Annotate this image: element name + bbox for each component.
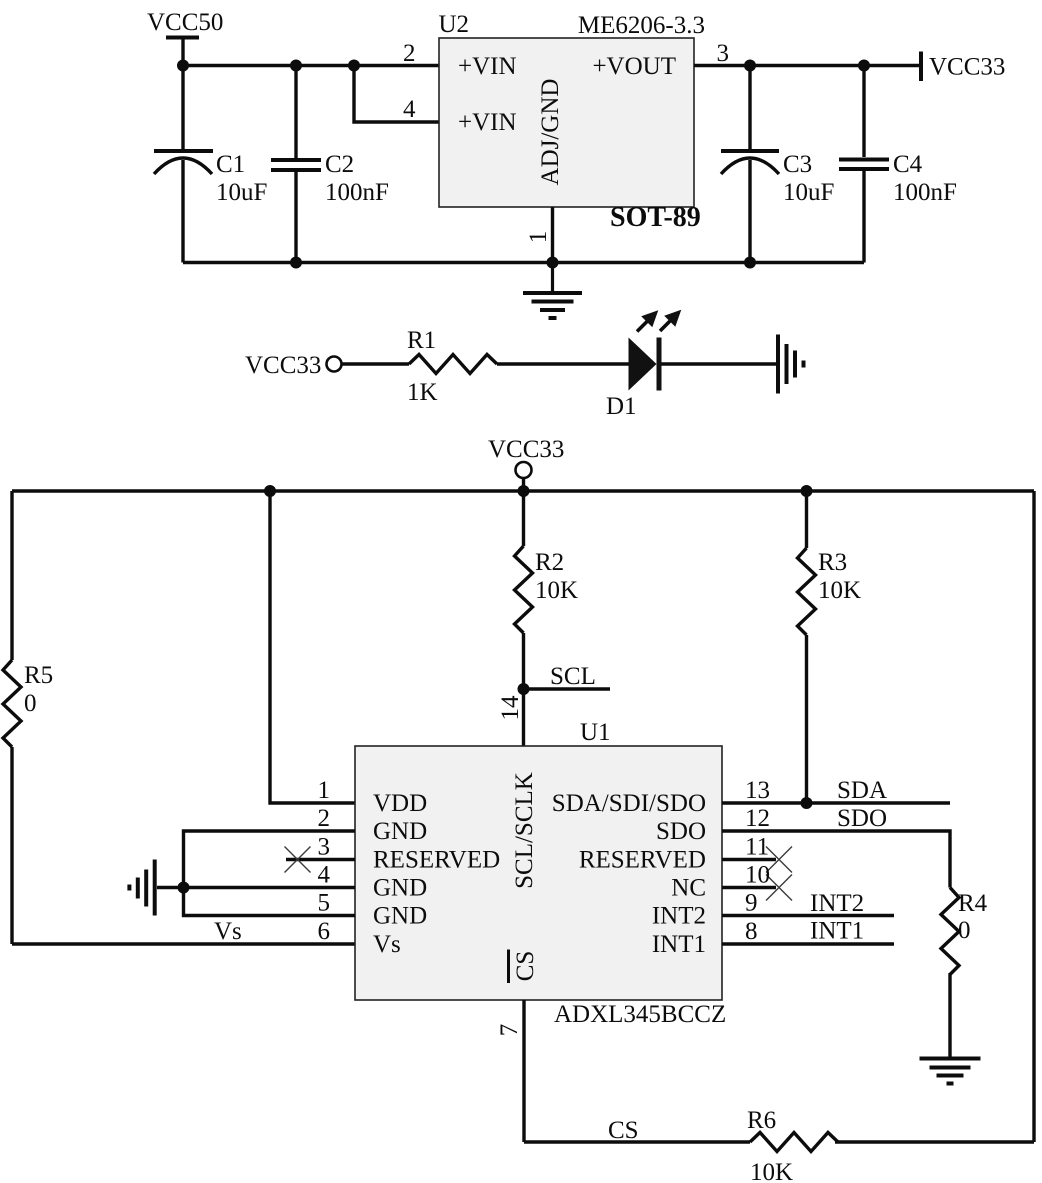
svg-text:100nF: 100nF bbox=[325, 179, 389, 206]
wire to ground (left) bbox=[157, 886, 184, 889]
ground (below R4) bbox=[920, 1059, 981, 1084]
resistor R5 bbox=[3, 660, 53, 747]
no-connect X pin10 bbox=[766, 875, 792, 901]
wire pin3 to VCC33 bbox=[694, 64, 921, 67]
wire R5 to Vs bbox=[10, 747, 13, 944]
svg-text:4: 4 bbox=[318, 862, 331, 889]
svg-text:Vs: Vs bbox=[214, 918, 242, 945]
svg-text:10K: 10K bbox=[535, 577, 578, 604]
svg-text:11: 11 bbox=[745, 834, 769, 861]
svg-text:GND: GND bbox=[373, 903, 427, 930]
junction U2 pin1 bottom bbox=[547, 257, 559, 269]
capacitor C4 bbox=[839, 66, 957, 263]
svg-text:NC: NC bbox=[671, 875, 706, 902]
svg-text:+VIN: +VIN bbox=[458, 53, 517, 80]
ground (left of U1, sideways) bbox=[129, 860, 154, 916]
junction C4 top bbox=[858, 60, 870, 72]
svg-text:2: 2 bbox=[403, 40, 416, 67]
resistor R2 bbox=[515, 491, 579, 633]
op-amp U2 body bbox=[439, 38, 694, 207]
wire pin8 INT1 bbox=[722, 942, 894, 945]
svg-text:C2: C2 bbox=[325, 151, 354, 178]
wire U2 pin1 down bbox=[551, 207, 554, 263]
junction at VCC50 stub bbox=[177, 60, 189, 72]
svg-text:INT1: INT1 bbox=[652, 931, 706, 958]
junction C3 top bbox=[744, 60, 756, 72]
svg-text:R5: R5 bbox=[24, 662, 53, 689]
wire R1 to D1 bbox=[497, 362, 629, 365]
wire GND pin4 bbox=[184, 886, 356, 889]
junction at pin4 branch bbox=[348, 60, 360, 72]
svg-text:+VIN: +VIN bbox=[458, 109, 517, 136]
power flag VCC50 bbox=[147, 9, 223, 66]
svg-text:12: 12 bbox=[745, 805, 770, 832]
svg-text:SDO: SDO bbox=[837, 805, 887, 832]
junction VDD drop bbox=[264, 485, 276, 497]
wire pin11 stub bbox=[722, 858, 776, 861]
svg-text:GND: GND bbox=[373, 818, 427, 845]
power flag VCC33 (top right) bbox=[921, 52, 1005, 82]
wire VCC50 rail to U2 pin2 bbox=[183, 64, 439, 67]
junction GND bracket bbox=[178, 882, 190, 894]
wire right rail bbox=[1032, 491, 1035, 1142]
svg-text:INT1: INT1 bbox=[810, 918, 864, 945]
svg-text:100nF: 100nF bbox=[893, 179, 957, 206]
wire pin3 stub bbox=[286, 858, 355, 861]
svg-text:7: 7 bbox=[496, 1024, 523, 1037]
svg-text:0: 0 bbox=[958, 917, 971, 944]
wire R2 to SCL junction bbox=[522, 633, 525, 689]
capacitor C3 bbox=[721, 66, 834, 263]
svg-text:VCC33: VCC33 bbox=[929, 54, 1005, 81]
svg-text:9: 9 bbox=[745, 890, 758, 917]
junction SCL bbox=[518, 683, 530, 695]
resistor R1 bbox=[407, 327, 497, 406]
no-connect X pin11 bbox=[766, 847, 792, 873]
wire GND pin2 bracket bbox=[184, 831, 356, 916]
junction C2 bottom bbox=[290, 257, 302, 269]
svg-text:10K: 10K bbox=[750, 1159, 793, 1183]
wire R6 to right rail bbox=[835, 1140, 1034, 1143]
wire pin12 SDO to R4 bbox=[722, 831, 950, 888]
wire left rail to R5 bbox=[10, 491, 13, 660]
wire pin4 branch bbox=[354, 66, 439, 123]
svg-text:VCC33: VCC33 bbox=[245, 352, 321, 379]
svg-text:R3: R3 bbox=[818, 549, 847, 576]
svg-text:3: 3 bbox=[318, 834, 331, 861]
ground (below U2 pin1) bbox=[523, 263, 582, 319]
no-connect X pin3 bbox=[285, 847, 311, 873]
svg-text:+VOUT: +VOUT bbox=[592, 53, 676, 80]
svg-text:INT2: INT2 bbox=[652, 903, 706, 930]
ground (right of D1, sideways) bbox=[778, 335, 804, 394]
svg-text:VCC50: VCC50 bbox=[147, 9, 223, 36]
svg-text:8: 8 bbox=[745, 918, 758, 945]
resistor R3 bbox=[798, 491, 862, 635]
wire pin10 stub bbox=[722, 886, 776, 889]
wire D1 to ground bbox=[662, 362, 777, 365]
svg-text:SCL/SCLK: SCL/SCLK bbox=[511, 772, 538, 889]
wire Vs to U1 pin6 bbox=[12, 942, 355, 945]
svg-text:SOT-89: SOT-89 bbox=[610, 202, 701, 233]
svg-text:1K: 1K bbox=[407, 379, 438, 406]
svg-text:1: 1 bbox=[525, 231, 552, 244]
svg-text:C3: C3 bbox=[783, 151, 812, 178]
junction at C2 top bbox=[290, 60, 302, 72]
svg-text:VCC33: VCC33 bbox=[488, 436, 564, 463]
svg-text:SDO: SDO bbox=[656, 818, 706, 845]
svg-text:4: 4 bbox=[403, 96, 416, 123]
wire R4 to ground bbox=[948, 973, 951, 1058]
svg-text:U2: U2 bbox=[439, 11, 470, 38]
wire U1 pin7 down bbox=[522, 1000, 525, 1142]
svg-text:10: 10 bbox=[745, 862, 770, 889]
wire pin9 INT2 bbox=[722, 914, 894, 917]
wire ground rail (top section) bbox=[183, 261, 864, 264]
svg-text:RESERVED: RESERVED bbox=[373, 847, 500, 874]
svg-text:Vs: Vs bbox=[373, 931, 401, 958]
wire SCL to U1 pin14 bbox=[522, 689, 525, 746]
svg-text:R2: R2 bbox=[535, 549, 564, 576]
svg-text:RESERVED: RESERVED bbox=[579, 847, 706, 874]
wire VCC33 stub bbox=[522, 478, 525, 491]
wire VCC33 to R1 bbox=[342, 362, 410, 365]
svg-text:CS: CS bbox=[512, 951, 539, 982]
svg-text:5: 5 bbox=[318, 890, 331, 917]
svg-text:ADJ/GND: ADJ/GND bbox=[537, 79, 564, 186]
svg-text:SDA: SDA bbox=[837, 777, 887, 804]
junction VCC33 terminal bbox=[518, 485, 530, 497]
svg-text:SDA/SDI/SDO: SDA/SDI/SDO bbox=[552, 790, 706, 817]
capacitor C2 bbox=[271, 66, 389, 263]
wire VCC33 rail bbox=[12, 489, 1034, 492]
svg-text:R4: R4 bbox=[958, 890, 988, 917]
svg-text:ADXL345BCCZ: ADXL345BCCZ bbox=[554, 1001, 726, 1028]
terminal circle VCC33 (LED) bbox=[327, 357, 342, 372]
svg-text:10uF: 10uF bbox=[783, 179, 834, 206]
svg-text:6: 6 bbox=[318, 918, 331, 945]
svg-text:10K: 10K bbox=[818, 577, 861, 604]
svg-text:R6: R6 bbox=[747, 1107, 776, 1134]
svg-text:10uF: 10uF bbox=[216, 179, 267, 206]
pin name CS (7, with overbar) bbox=[509, 950, 540, 984]
svg-text:0: 0 bbox=[24, 690, 37, 717]
svg-text:GND: GND bbox=[373, 875, 427, 902]
svg-text:ME6206-3.3: ME6206-3.3 bbox=[578, 12, 705, 39]
svg-text:2: 2 bbox=[318, 805, 331, 832]
IC U1 body bbox=[355, 746, 722, 1000]
wire pin13 SDA bbox=[722, 801, 950, 804]
svg-text:13: 13 bbox=[745, 777, 770, 804]
svg-text:INT2: INT2 bbox=[810, 890, 864, 917]
junction R3 bottom bbox=[801, 797, 813, 809]
svg-text:3: 3 bbox=[717, 40, 730, 67]
resistor R4 bbox=[941, 888, 988, 975]
terminal circle VCC33 (sensor) bbox=[516, 462, 532, 478]
svg-text:CS: CS bbox=[608, 1117, 639, 1144]
svg-text:C1: C1 bbox=[216, 151, 245, 178]
svg-text:C4: C4 bbox=[893, 151, 923, 178]
svg-text:U1: U1 bbox=[580, 719, 611, 746]
LED D1 bbox=[606, 312, 679, 420]
svg-text:D1: D1 bbox=[606, 393, 637, 420]
capacitor C1 bbox=[154, 66, 267, 263]
svg-text:VDD: VDD bbox=[373, 790, 427, 817]
svg-text:1: 1 bbox=[318, 777, 331, 804]
svg-text:SCL: SCL bbox=[550, 663, 596, 690]
wire CS net bbox=[524, 1140, 750, 1143]
wire rail to U1 pin1 bbox=[270, 491, 355, 803]
junction C3 bottom bbox=[744, 257, 756, 269]
svg-text:14: 14 bbox=[497, 695, 524, 721]
wire SCL stub bbox=[524, 687, 611, 690]
junction R3 top bbox=[801, 485, 813, 497]
svg-text:R1: R1 bbox=[407, 327, 436, 354]
wire R3 to SDA bbox=[805, 635, 808, 803]
resistor R6 bbox=[747, 1107, 838, 1183]
